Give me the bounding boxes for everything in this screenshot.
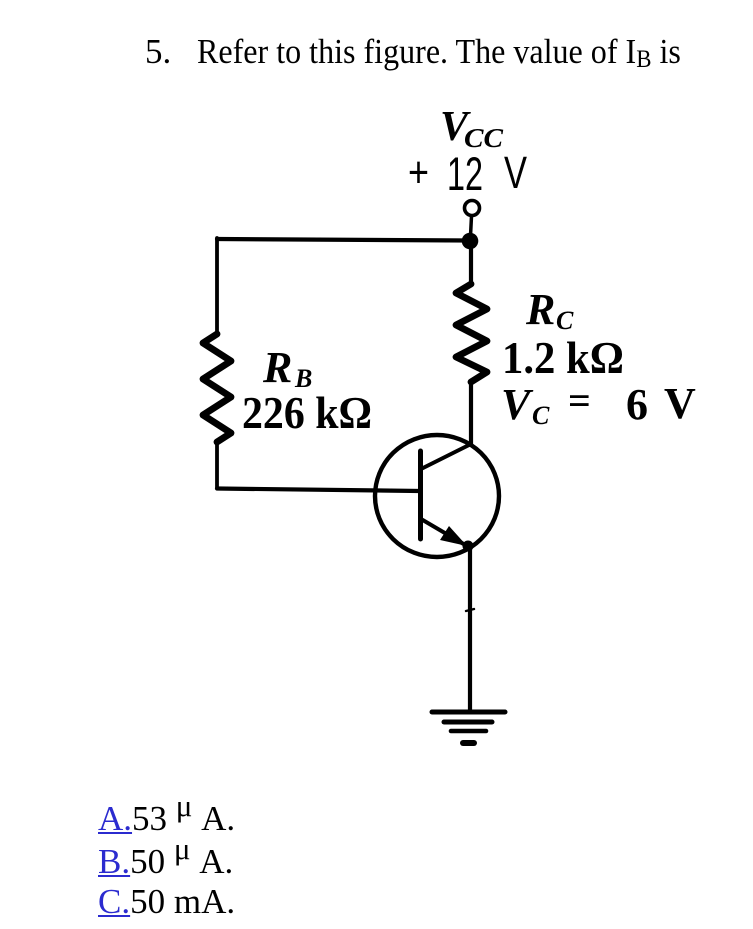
svg-text:=: = [568, 378, 591, 423]
svg-text:226 kΩ: 226 kΩ [242, 387, 372, 438]
svg-text:V: V [504, 147, 527, 198]
svg-text:R: R [525, 285, 555, 334]
svg-text:6: 6 [626, 380, 648, 429]
svg-text:R: R [262, 343, 292, 392]
svg-text:V: V [501, 380, 534, 429]
svg-text:C: C [532, 401, 550, 430]
svg-text:12: 12 [447, 147, 483, 200]
svg-text:C: C [556, 306, 574, 335]
svg-text:+: + [408, 148, 429, 197]
svg-text:V: V [664, 379, 696, 428]
svg-text:1.2 kΩ: 1.2 kΩ [502, 332, 624, 383]
